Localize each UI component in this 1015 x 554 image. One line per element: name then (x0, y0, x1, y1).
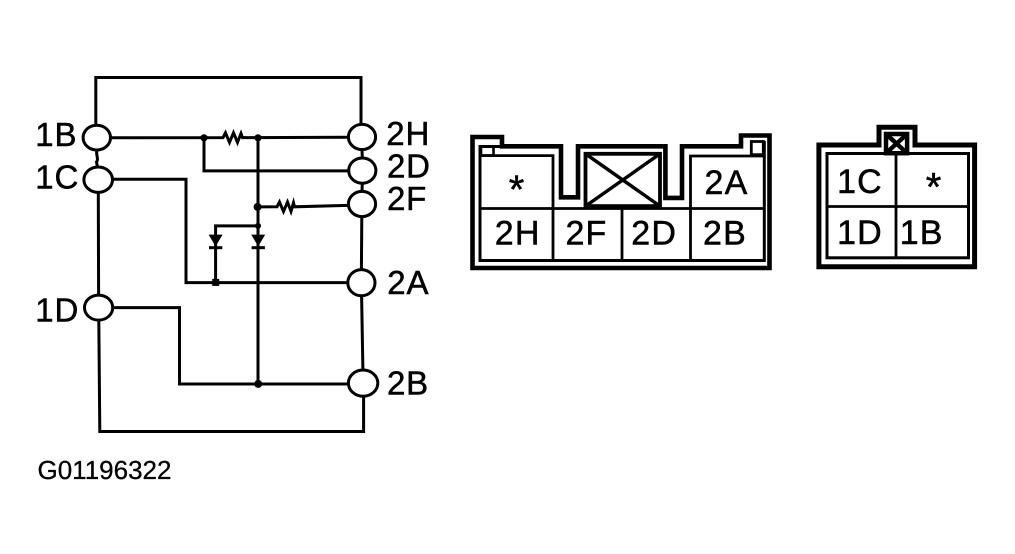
pin 2F (348, 191, 375, 216)
svg-text:2A: 2A (387, 264, 429, 301)
junction J3 node to 2F (254, 203, 262, 211)
svg-text:1D: 1D (35, 291, 79, 328)
wire 1B to 2H with resistor (110, 133, 347, 143)
junction J2 on 1B-2H wire (254, 134, 261, 141)
connector C1 divider horizontal (827, 205, 969, 208)
pin 2D (349, 158, 376, 183)
pin 2A (348, 270, 375, 296)
connector C1 key X square (886, 134, 907, 153)
pin 1D (85, 295, 113, 320)
wire link 2A to 2B (362, 296, 363, 370)
connector C2 blocked cavity X box (586, 154, 661, 206)
svg-text:1B: 1B (900, 214, 944, 252)
connector C2 divider 2H/2F (552, 209, 555, 261)
svg-text:2D: 2D (387, 148, 431, 185)
svg-text:1D: 1D (837, 214, 883, 252)
connector C2 divider 2F/2D (621, 209, 624, 261)
svg-text:1C: 1C (35, 158, 79, 195)
wire tee to left diode (216, 226, 258, 283)
pin 1B (83, 125, 110, 150)
wire link 2D to 2F (361, 183, 364, 191)
wire top rail 1B to 2H (96, 78, 361, 126)
connector C2 divider 2D/2B (689, 209, 692, 261)
wire link 2F to 2A (360, 216, 363, 269)
wire junction drop to 2D (204, 138, 349, 171)
svg-text:2B: 2B (387, 365, 429, 402)
wire 1C to 2A (112, 179, 347, 282)
svg-text:*: * (926, 166, 942, 210)
pin 2H (348, 124, 375, 149)
svg-text:1C: 1C (837, 163, 883, 201)
svg-text:*: * (509, 168, 525, 212)
diode D2 right (251, 235, 265, 247)
connector C1 inner border (827, 154, 969, 258)
connector C2 outline outer (473, 136, 770, 269)
connector C1 divider vertical (895, 154, 898, 258)
svg-text:2H: 2H (495, 214, 541, 252)
diode D1 left (209, 235, 223, 247)
connector C2 row separator (480, 207, 764, 210)
pin 1C (84, 167, 113, 192)
svg-text:2D: 2D (631, 214, 677, 252)
svg-text:2B: 2B (703, 214, 747, 252)
wire vertical main node to 2B (257, 138, 260, 384)
wire link 2H to 2D (361, 149, 364, 158)
junction J4 diode tee (255, 223, 261, 229)
wire 1D bottom rail to 2B (99, 320, 364, 432)
junction J1 on 1B-2H wire (200, 134, 207, 141)
junction J6 on 2B wire (254, 380, 262, 388)
wire node to 2F with resistor (258, 202, 349, 211)
connector C2 key square left (481, 147, 494, 156)
junction J5 left diode to 2A wire (212, 279, 219, 286)
connector C2 cell * border (481, 156, 553, 209)
connector C2 key square right (751, 142, 763, 155)
connector C2 outline inner (480, 141, 764, 261)
connector C2 cell 2A border (691, 156, 765, 209)
svg-text:2F: 2F (387, 180, 427, 217)
wire link 1C to 1D (97, 192, 100, 295)
pin 2B (348, 370, 377, 396)
svg-text:G01196322: G01196322 (38, 455, 172, 485)
wire 1D to 2B (113, 308, 349, 384)
svg-text:1B: 1B (35, 116, 77, 153)
wire link 1B to 1C (97, 150, 98, 167)
connector C1 outline outer (819, 127, 975, 267)
svg-text:2F: 2F (565, 214, 607, 252)
svg-text:2A: 2A (705, 164, 749, 202)
